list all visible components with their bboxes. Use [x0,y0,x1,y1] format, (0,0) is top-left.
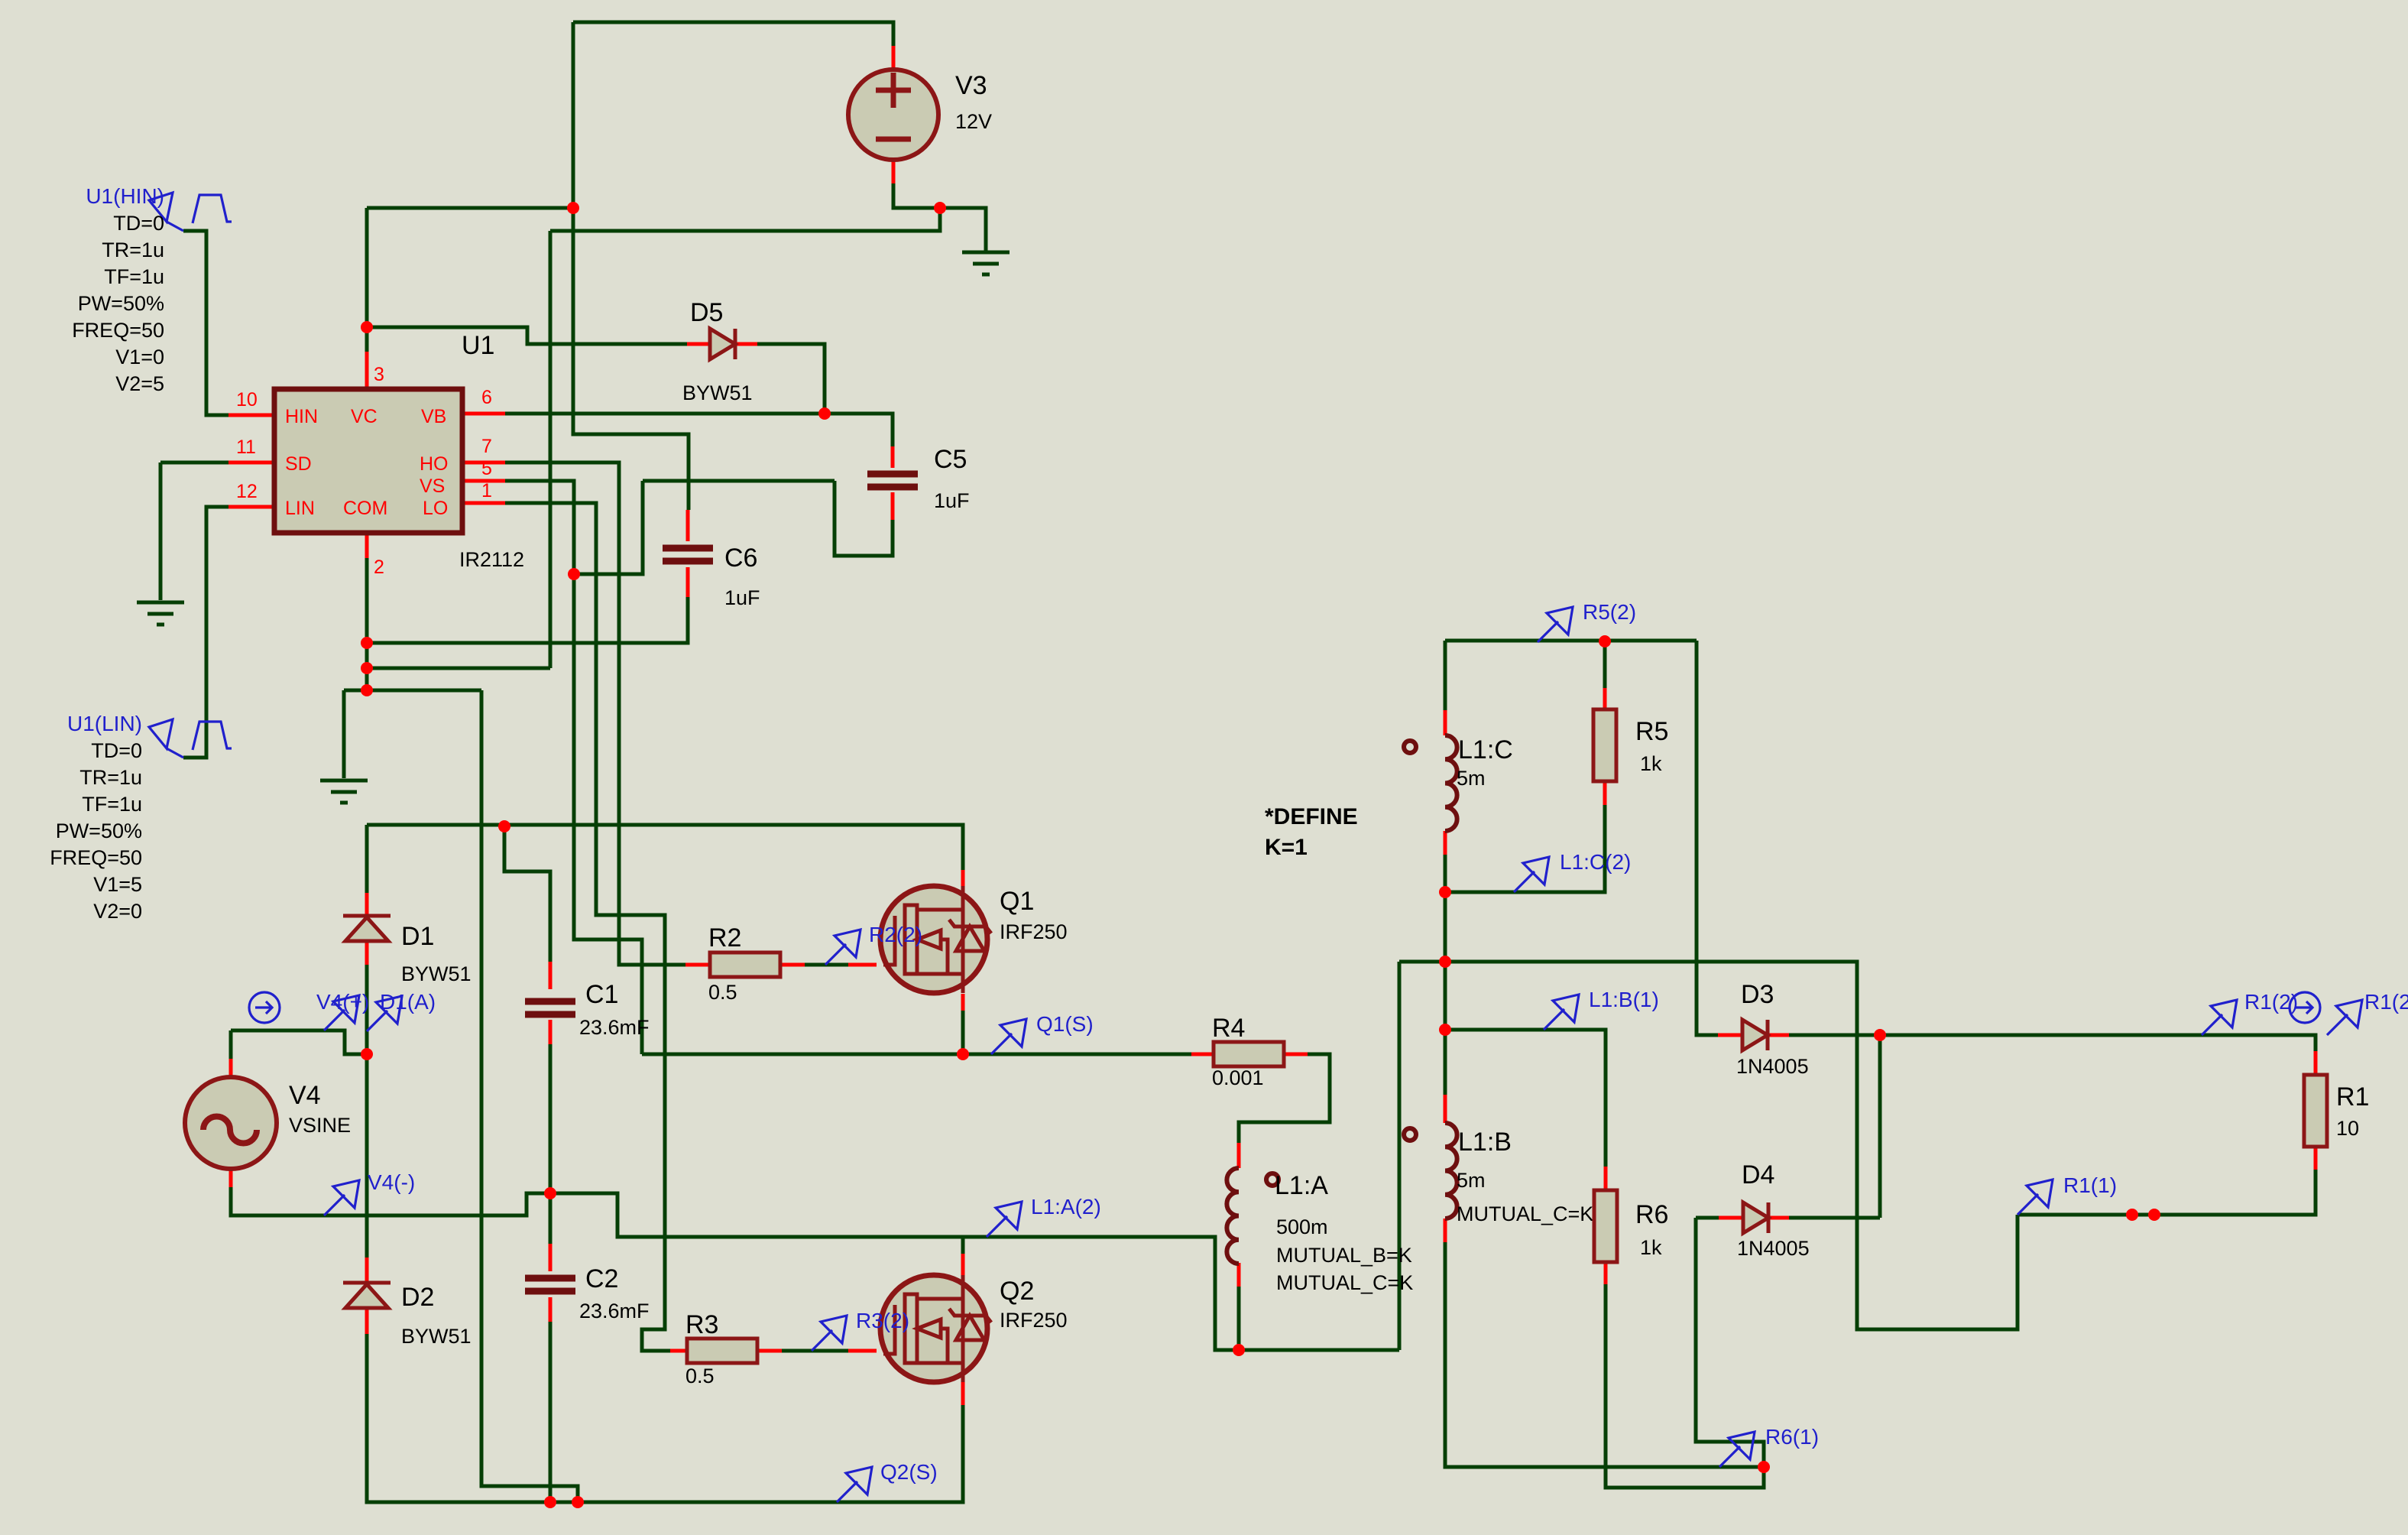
svg-text:0.5: 0.5 [685,1365,715,1387]
node V3- [934,202,946,214]
diode D5 [710,329,735,359]
wire L1:B(1) to R6 top [1445,1030,1606,1167]
svg-text:12V: 12V [955,110,992,133]
svg-text:C6: C6 [724,544,757,573]
svg-text:MUTUAL_C=K: MUTUAL_C=K [1457,1202,1593,1225]
svg-text:R1(2): R1(2) [2364,990,2408,1014]
R4 stubs [1191,1053,1214,1056]
svg-text:1: 1 [481,480,492,501]
voltage probe R5(2) [1538,607,1573,642]
wire R1 bottom line [2017,1170,2316,1215]
wire HIN input [183,231,228,415]
wire C2 top [549,1193,553,1244]
D5 stubs [687,342,710,346]
svg-text:TF=1u: TF=1u [104,265,164,288]
node D3 cathode [1874,1029,1886,1041]
node VB/D5 [818,407,831,420]
voltage probe D1(A) [367,996,402,1031]
node COM b [361,662,373,674]
svg-text:IRF250: IRF250 [1000,1309,1068,1332]
svg-text:23.6mF: 23.6mF [579,1300,650,1322]
node L1:A bottom [1233,1344,1245,1356]
wire SD to ground [159,462,163,600]
C2 stubs [549,1244,553,1271]
svg-text:2: 2 [374,557,384,578]
wire R3 to Q2 gate [782,1349,848,1353]
node mid-tap [1439,956,1451,968]
wire D2 anode bottom rail to Q2 source [367,1334,963,1502]
voltage probe Q1(S) [991,1019,1026,1054]
C6 stubs [686,510,690,541]
ground below COM [320,780,368,803]
resistor R3 [687,1339,757,1363]
wire V3- branch left [550,208,940,231]
wire R6 bottom jog [1606,1284,1764,1488]
svg-text:5: 5 [481,458,492,479]
svg-text:BYW51: BYW51 [682,381,753,404]
node VS jog [568,568,580,580]
svg-text:R5: R5 [1635,717,1668,746]
voltage probe Q2(S) [837,1467,872,1502]
svg-text:R2(2): R2(2) [869,923,922,946]
wire C1 bottom [549,1044,553,1193]
node COM c [361,684,373,696]
D4 stubs [1719,1216,1743,1220]
wire V4- rail [231,1187,550,1215]
C1 stubs [549,962,553,989]
R6 stubs [1604,1167,1608,1190]
wire V3- vertical [549,231,553,668]
svg-text:C5: C5 [934,445,967,474]
capacitor C5 [867,474,918,487]
voltage probe R1(1) [2017,1180,2053,1215]
svg-text:10: 10 [2336,1117,2359,1140]
V3 stubs [892,46,896,70]
diode D2 [343,1283,391,1308]
svg-text:VS: VS [420,475,445,497]
node L1:C bottom [1439,886,1451,898]
node R1 return a [2126,1209,2138,1221]
svg-text:D2: D2 [401,1283,434,1312]
svg-text:5m: 5m [1457,767,1486,790]
resistor R1 [2304,1075,2327,1147]
resistor R5 [1593,709,1616,781]
svg-text:VSINE: VSINE [289,1114,351,1137]
battery V3 [848,70,938,160]
wire D4 anode stub wire [1696,1216,1719,1220]
capacitor C1 [525,1001,575,1014]
wire L1:A bottom [1237,1287,1241,1350]
resistor R6 [1594,1190,1617,1262]
node VC tap [567,202,579,214]
current probe V4 current [249,992,280,1023]
svg-text:C1: C1 [585,980,618,1009]
svg-text:1k: 1k [1640,752,1662,775]
wire COM to V3- [367,667,550,670]
R5 stubs [1603,688,1607,709]
wire COM to C6 bottom [367,597,688,643]
wire to ground 2 [342,690,346,778]
node Q1 source [957,1048,969,1060]
svg-text:LO: LO [423,498,448,519]
wire COM down to source rail [481,690,578,1502]
ground near SD [137,602,184,625]
node L1:B top [1439,1024,1451,1036]
svg-text:MUTUAL_C=K: MUTUAL_C=K [1276,1271,1413,1294]
node C1/C2 midpoint [544,1187,556,1199]
voltage probe L1:C(2) [1514,857,1549,892]
svg-text:6: 6 [481,387,492,408]
svg-text:R4: R4 [1212,1014,1245,1043]
inductor L1:B [1445,1123,1457,1219]
wire V3+ top rail [573,22,893,46]
R3 stubs [670,1349,687,1353]
wire C2 bottom [549,1322,553,1502]
wire VB line to C5 top [505,414,893,446]
wire D4 anode to L1:B bottom [1696,1218,1764,1467]
svg-text:23.6mF: 23.6mF [579,1016,650,1039]
svg-text:V4: V4 [289,1081,321,1110]
Q1 stubs [961,870,965,887]
sine source V4 [185,1077,277,1169]
wire V4+ to D1 anode [231,1030,367,1054]
svg-text:1uF: 1uF [934,489,970,512]
svg-text:PW=50%: PW=50% [56,819,142,842]
wire L1:C top rail [1445,639,1697,643]
diode D4 [1743,1202,1768,1233]
svg-text:V1=0: V1=0 [115,346,164,368]
svg-text:SD: SD [285,453,312,475]
voltage probe R3(2) [812,1316,847,1351]
node C2 bottom [544,1496,556,1508]
wire rail to D1 cathode [365,825,369,893]
wire Q2 drain up [961,1237,965,1254]
svg-text:Q1: Q1 [1000,887,1034,916]
svg-text:R6(1): R6(1) [1765,1425,1819,1449]
wire SD [160,461,228,465]
capacitor C6 [663,548,713,561]
svg-text:11: 11 [236,436,256,458]
svg-text:L1:A(2): L1:A(2) [1031,1195,1101,1219]
L1:C stubs [1444,710,1447,735]
svg-text:V1=5: V1=5 [93,873,142,896]
svg-text:V3: V3 [955,71,987,100]
svg-text:1uF: 1uF [724,586,760,609]
svg-text:Q2: Q2 [1000,1277,1034,1306]
svg-text:Q2(S): Q2(S) [880,1460,938,1484]
L1:B stubs [1444,1095,1447,1123]
capacitor C2 [525,1278,575,1291]
wire L1:C bottom to L1:B top [1444,855,1447,1095]
svg-text:U1(HIN): U1(HIN) [86,184,164,208]
wire COM vertical [365,558,369,690]
V4 stubs [229,1059,233,1076]
wire D1 anode to D2 cathode [365,965,369,1258]
diode D3 [1742,1020,1768,1050]
svg-text:D3: D3 [1741,980,1774,1009]
wire LIN input [183,507,228,758]
wire D4 cathode [1789,1216,1880,1220]
IC U1 IR2112 body [274,389,462,533]
node R5 top [1599,635,1611,647]
svg-text:R5(2): R5(2) [1583,600,1636,624]
node L1:B bottom/R6 [1758,1461,1770,1473]
wire R4 to L1:A top [1239,1054,1330,1143]
svg-text:R2: R2 [708,923,741,952]
wire C5 bottom loop [835,481,893,556]
resistor R4 [1214,1042,1284,1066]
wire VC to D5 anode [367,327,687,344]
L1:A stubs [1237,1143,1241,1168]
wire rail to C1 top [504,826,550,962]
wire V3- to ground [893,183,986,252]
D1 stubs [365,893,369,916]
svg-text:R1: R1 [2336,1082,2369,1111]
wire Q1 source down [961,1011,965,1054]
wire D3 cathode to R1 top [1789,1035,2316,1051]
svg-text:1N4005: 1N4005 [1737,1237,1810,1260]
wire COM branch [344,689,481,693]
svg-text:*DEFINE: *DEFINE [1265,804,1358,829]
svg-text:HIN: HIN [285,406,318,427]
wire mid-tap vertical [1398,962,1402,1350]
voltage probe R6(1) [1719,1432,1755,1467]
svg-text:MUTUAL_B=K: MUTUAL_B=K [1276,1244,1412,1267]
wire VS to C5 segment [643,479,835,483]
C5 stubs [891,446,895,468]
node V4+/D1 [361,1048,373,1060]
svg-text:5m: 5m [1457,1169,1486,1192]
R1 stubs [2314,1051,2318,1075]
node VC pin [361,321,373,333]
wire to L1:C [1444,641,1447,710]
svg-text:D1: D1 [401,922,434,951]
svg-text:Q1(S): Q1(S) [1036,1012,1094,1036]
svg-text:1k: 1k [1640,1236,1662,1259]
voltage probe R1(2) right [2327,1000,2362,1035]
svg-text:R3(2): R3(2) [856,1309,909,1332]
diode D1 [343,916,391,941]
D2 stubs [365,1258,369,1283]
svg-text:V2=5: V2=5 [115,372,164,395]
wire L1:B bottom rail [1445,1242,1764,1467]
svg-text:FREQ=50: FREQ=50 [50,846,142,869]
svg-text:1N4005: 1N4005 [1736,1055,1809,1078]
svg-text:LIN: LIN [285,498,315,519]
Q2 stubs [961,1254,965,1276]
svg-text:500m: 500m [1276,1215,1328,1238]
wire V4 top [229,1030,233,1059]
svg-text:L1:C: L1:C [1458,735,1513,764]
svg-text:D4: D4 [1742,1160,1774,1189]
svg-text:IRF250: IRF250 [1000,920,1068,943]
svg-text:D1(A): D1(A) [380,990,436,1014]
wire D3-D4 cathode tie [1878,1035,1882,1218]
svg-text:10: 10 [236,389,258,411]
svg-text:U1: U1 [462,331,494,360]
U1 pin stubs [228,414,274,417]
svg-text:V4(+): V4(+) [316,990,369,1014]
voltage probe R2(2) [825,930,860,965]
R2 stubs [685,963,710,967]
wire HO to R2 [505,462,685,965]
resistor R2 [710,952,780,977]
pulse generator U1(LIN) [149,719,232,758]
svg-text:L1:B: L1:B [1458,1128,1512,1157]
wire LO to R3 [505,503,670,1351]
svg-text:BYW51: BYW51 [401,962,472,985]
node COM/rail [572,1496,584,1508]
current probe R1 current [2290,992,2320,1023]
svg-text:0.5: 0.5 [708,981,737,1004]
svg-text:R6: R6 [1635,1200,1668,1229]
svg-text:R1(1): R1(1) [2063,1173,2117,1197]
svg-text:TD=0: TD=0 [91,739,142,762]
svg-text:3: 3 [374,364,384,385]
svg-text:TD=0: TD=0 [113,212,164,235]
node R1 return b [2148,1209,2160,1221]
inductor L1:A [1227,1168,1239,1264]
svg-text:R3: R3 [685,1310,718,1339]
svg-text:BYW51: BYW51 [401,1325,472,1348]
wire L1:C top to D3 anode [1697,641,1718,1035]
voltage probe V4(-) [324,1180,359,1215]
wire VC branch [367,206,573,210]
voltage probe R1(2) left [2202,1000,2237,1035]
svg-text:U1(LIN): U1(LIN) [67,712,142,735]
svg-text:V2=0: V2=0 [93,900,142,923]
svg-text:V4(-): V4(-) [368,1170,415,1194]
svg-text:VB: VB [421,406,446,427]
svg-text:VC: VC [351,406,378,427]
voltage probe L1:A(2) [987,1202,1022,1237]
svg-text:C2: C2 [585,1264,618,1293]
svg-text:PW=50%: PW=50% [78,292,164,315]
voltage probe V4(+) [324,995,359,1030]
voltage probe L1:B(1) [1544,995,1579,1030]
svg-text:K=1: K=1 [1265,835,1308,860]
pulse generator U1(HIN) [149,193,232,231]
svg-text:7: 7 [481,436,492,457]
node COM a [361,637,373,649]
svg-text:FREQ=50: FREQ=50 [72,319,164,342]
wire VS vertical chain [505,481,642,1054]
svg-text:L1:B(1): L1:B(1) [1589,988,1659,1011]
wire mid rail to Q2 drain and L1:A bottom [550,1193,1399,1350]
svg-text:L1:A: L1:A [1275,1171,1328,1200]
svg-text:TF=1u: TF=1u [82,793,142,816]
ground near V3 [962,252,1010,274]
svg-text:D5: D5 [690,298,723,327]
node DC+ / C1 [498,820,510,832]
wire mid-tap to R1 return [1399,962,2017,1329]
transistor Q2 IRF250 [880,1275,991,1382]
D3 stubs [1718,1034,1742,1037]
svg-text:0.001: 0.001 [1212,1066,1264,1089]
wire DC+ rail to Q1 drain [367,825,963,870]
wire R5 top [1603,641,1607,688]
wire VC vertical to C6 top [573,22,689,510]
wire VC pin drop [365,208,369,352]
svg-text:HO: HO [420,453,449,475]
svg-text:TR=1u: TR=1u [102,239,164,261]
wire Q1S line to R4 [642,1053,1191,1056]
inductor L1:C [1445,735,1457,831]
svg-text:IR2112: IR2112 [459,548,524,571]
transistor Q1 IRF250 [880,886,991,993]
svg-text:12: 12 [236,481,258,502]
svg-text:TR=1u: TR=1u [79,766,142,789]
wire R2 to Q1 gate [805,963,848,967]
svg-text:L1:C(2): L1:C(2) [1560,850,1631,874]
wire D5 cathode to VB [757,344,825,414]
svg-text:COM: COM [343,498,387,519]
wire VS jog [574,481,643,574]
wire R5 bottom loop [1445,805,1605,892]
